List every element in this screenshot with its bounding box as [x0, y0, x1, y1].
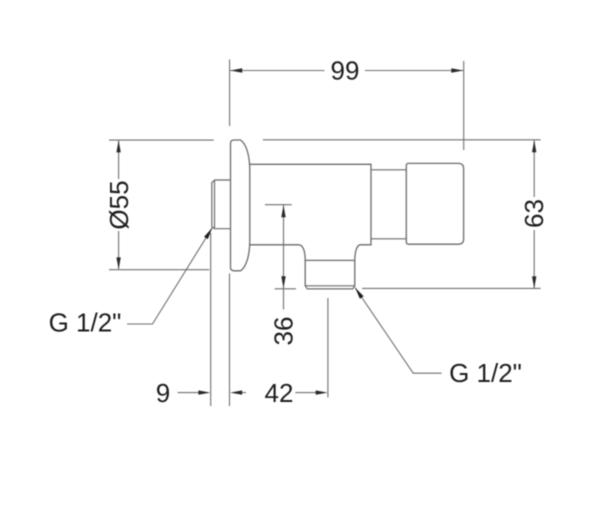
- svg-text:9: 9: [156, 378, 170, 408]
- svg-text:42: 42: [265, 378, 294, 408]
- dimension Ø55 arrow up: [116, 140, 120, 152]
- dimension 63 arrow down: [532, 276, 536, 288]
- dimension 99 arrow left: [230, 68, 242, 72]
- dimension 42 line left + arrow: [241, 392, 246, 394]
- dimension 99 arrow right: [451, 68, 463, 72]
- dimension Ø55 extension line bottom: [109, 269, 209, 271]
- dimension 36 line: [283, 205, 285, 310]
- dimension 42 extension line 3 (outlet axis): [327, 298, 329, 398]
- svg-text:Ø55: Ø55: [104, 180, 134, 229]
- leader G 1/2 right (outlet): [355, 288, 442, 374]
- svg-text:63: 63: [519, 199, 549, 228]
- svg-text:36: 36: [269, 317, 299, 346]
- dimension 99 line: [230, 70, 463, 72]
- valve body (main cylinder, side view): [250, 164, 372, 285]
- dimension 99 extension line left: [229, 60, 231, 127]
- dimension 9 line: [178, 392, 199, 394]
- svg-text:99: 99: [331, 56, 360, 86]
- leader G 1/2 left arrowhead: [204, 228, 212, 239]
- dimension 63 line: [533, 140, 535, 288]
- dimension 63 extension line bottom: [362, 287, 541, 289]
- dimension 42 line right + arrow: [295, 392, 317, 394]
- neck between body and handle: [371, 170, 406, 239]
- dimension 36 arrow up: [281, 205, 285, 217]
- dimension Ø55 extension line top: [109, 139, 214, 141]
- outlet spout bottom thread end (double line): [305, 286, 355, 289]
- wall flange (Ø55 escutcheon, edge view): [231, 140, 250, 271]
- svg-text:G 1/2": G 1/2": [449, 358, 522, 388]
- inlet connector G 1/2 (left, behind flange): [212, 180, 231, 229]
- dimension 9/42 extension line 2 (wall face): [229, 274, 231, 407]
- dimension 36 tick bottom: [275, 288, 296, 290]
- dimension 9 arrow: [198, 390, 210, 394]
- leader G 1/2 left (inlet): [127, 228, 212, 324]
- dimension 63 arrow up: [532, 140, 536, 152]
- dimension 9/42 extension line 1 (connector face): [210, 233, 212, 406]
- dimension 99 extension line right: [463, 61, 465, 150]
- dimension 36 axis tick top: [265, 204, 292, 206]
- svg-text:G 1/2": G 1/2": [49, 308, 122, 338]
- dimension Ø55 line: [118, 141, 120, 269]
- handle knob (right): [406, 163, 463, 244]
- dimension Ø55 arrow down: [116, 257, 120, 269]
- dimension 36 arrow down: [281, 276, 285, 288]
- leader G 1/2 right arrowhead: [355, 288, 364, 299]
- dimension 63 extension line top: [263, 139, 541, 141]
- outlet spout shoulder line: [305, 259, 355, 261]
